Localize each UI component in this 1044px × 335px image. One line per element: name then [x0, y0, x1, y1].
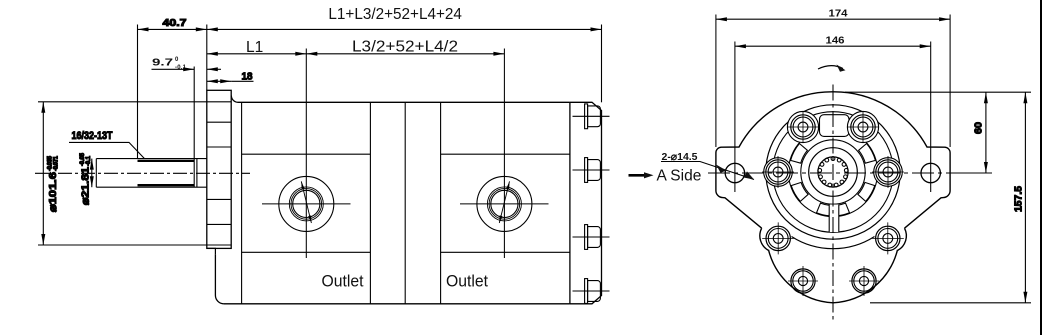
spline bore circle: [818, 157, 848, 187]
hub ring: [801, 140, 865, 204]
dim phi101.6 ext top: [38, 101, 231, 103]
screw R: [872, 156, 904, 188]
dim 146 ext right: [930, 42, 932, 193]
dim 9.7 leader/arrow left: [152, 68, 195, 70]
rear bolt 2: [573, 158, 610, 183]
dim phi21.81 text: [80, 152, 93, 205]
screw bottom-cover left: [788, 266, 818, 296]
port 1 thread depth line: [301, 181, 311, 223]
dim 18 tail: [231, 80, 253, 82]
pump body outline: [224, 96, 570, 304]
dim 9.7 arrow right: [207, 68, 221, 70]
lower-left lobe arc: [760, 228, 769, 250]
svg-text:18: 18: [242, 71, 253, 83]
web pocket 4: [791, 182, 808, 201]
shaft spline root thick lines: [138, 161, 195, 185]
dim phi21.81 line: [91, 159, 93, 188]
mounting flange plate: [207, 90, 231, 248]
svg-text:-0.1: -0.1: [86, 155, 92, 166]
dim 60 text: [973, 122, 985, 134]
flange bore step lines: [207, 122, 231, 224]
dim L1+L3/2+52+L4+24 line: [207, 28, 602, 30]
svg-text:174: 174: [829, 8, 848, 20]
front cover outer circle: [766, 105, 900, 239]
port 1 crosshair: [262, 203, 351, 205]
dim 157.5 line: [1024, 92, 1026, 303]
port1 center extension line: [305, 49, 307, 259]
dim L3/2+52+L4/2 line: [306, 53, 504, 55]
port 2 thread depth line: [499, 181, 509, 223]
dim 146 line: [735, 45, 931, 47]
port 2 crosshair: [460, 203, 549, 205]
port2 center extension line: [503, 49, 505, 259]
dim L1 line: [207, 53, 306, 55]
dim 60 line: [985, 92, 987, 173]
main vertical centerline: [832, 85, 834, 323]
svg-text:40.7: 40.7: [163, 17, 187, 29]
bottom reference extension line: [870, 302, 1031, 304]
rear cover: [570, 102, 602, 303]
svg-text:L1: L1: [246, 39, 263, 56]
svg-text:Outlet: Outlet: [446, 273, 488, 291]
top web pocket: [820, 115, 850, 137]
shaft outline: [96, 159, 207, 188]
web outer ring: [788, 127, 877, 216]
shaft spline end double line: [194, 159, 197, 188]
section joint line 2: [369, 102, 371, 303]
dim L1+... ext line right: [601, 25, 603, 103]
rear bolt 1: [573, 104, 610, 129]
svg-text:0: 0: [175, 57, 179, 63]
screw BR: [872, 222, 904, 254]
web pocket 1: [791, 144, 808, 164]
section joint line 1: [241, 102, 243, 303]
svg-text:-0.071: -0.071: [54, 155, 60, 171]
shaft centerline: [35, 172, 250, 174]
dim L1+... ext line left: [206, 25, 208, 91]
drawing frame right border: [1040, 0, 1042, 335]
dim phi101.6 text: [47, 155, 60, 212]
section joint line 4: [440, 102, 442, 303]
svg-text:Outlet: Outlet: [322, 273, 364, 291]
rotation arrow: [818, 66, 843, 69]
bottom rib: [829, 205, 838, 233]
body lower-left edge: [215, 254, 224, 303]
lower-right lobe arc: [898, 228, 907, 250]
svg-text:146: 146: [826, 35, 845, 47]
web pocket 5: [836, 203, 850, 216]
spline teeth: [818, 157, 848, 187]
web pocket 2: [859, 144, 876, 164]
port 1 thread circles: [289, 187, 323, 221]
screw TL: [787, 111, 819, 143]
center right extension line: [957, 172, 992, 174]
port 2 outer circle: [477, 176, 532, 231]
front cover chamfer circle: [773, 112, 894, 233]
screw BL: [762, 222, 794, 254]
screw L: [762, 156, 794, 188]
screw TR: [847, 111, 879, 143]
mounting hole left: [725, 163, 744, 182]
A Side arrow: [629, 174, 647, 177]
svg-text:60: 60: [973, 122, 985, 134]
svg-text:157.5: 157.5: [1013, 186, 1025, 212]
dim 174 line: [716, 18, 950, 20]
main horizontal centerline: [708, 172, 990, 174]
label 2-phi14.5 leader: [661, 162, 754, 180]
dim 9.7 text: [152, 57, 187, 71]
screw bottom-cover right: [849, 266, 879, 296]
dim 40.7 line: [138, 28, 207, 30]
front flange outline: [716, 92, 950, 228]
dim phi101.6 ext bottom: [38, 244, 231, 246]
mounting hole right: [921, 163, 940, 182]
port 2 thread circles: [487, 187, 521, 221]
rear bolt 3: [573, 225, 610, 250]
dim 40.7 ext line: [137, 25, 139, 159]
bottom plate: [769, 250, 898, 303]
dim 146 ext left: [734, 42, 736, 193]
svg-text:-0.1: -0.1: [175, 65, 187, 71]
web pocket 6: [858, 182, 875, 201]
dim 9.7 ext line: [193, 67, 195, 159]
flange bottom step: [207, 248, 216, 254]
svg-text:L3/2+52+L4/2: L3/2+52+L4/2: [352, 39, 458, 56]
dim phi101.6 line: [42, 102, 44, 245]
svg-text:9.7: 9.7: [152, 57, 173, 69]
svg-text:⌀21.81: ⌀21.81: [80, 167, 92, 205]
web pocket 3: [817, 203, 831, 216]
section joint line 3: [404, 102, 406, 303]
spline leader line: [69, 142, 145, 158]
dim 174 ext left: [715, 15, 717, 148]
svg-text:L1+L3/2+52+L4+24: L1+L3/2+52+L4+24: [328, 6, 462, 23]
port 1 outer circle: [279, 176, 334, 231]
plate top sag arc: [792, 237, 875, 249]
dim 174 ext right: [949, 15, 951, 148]
rear bolt 4: [573, 279, 610, 304]
port boss 2 lines: [441, 154, 570, 252]
dim 18 line: [207, 80, 231, 82]
dim 157.5 text: [1013, 186, 1025, 212]
port boss 1 lines: [242, 154, 371, 252]
svg-text:16/32-13T: 16/32-13T: [72, 130, 113, 142]
svg-text:⌀101.6: ⌀101.6: [47, 172, 59, 212]
svg-text:A Side: A Side: [657, 167, 702, 184]
shaft bore circle: [809, 148, 858, 197]
top reference extension line: [845, 91, 1031, 93]
